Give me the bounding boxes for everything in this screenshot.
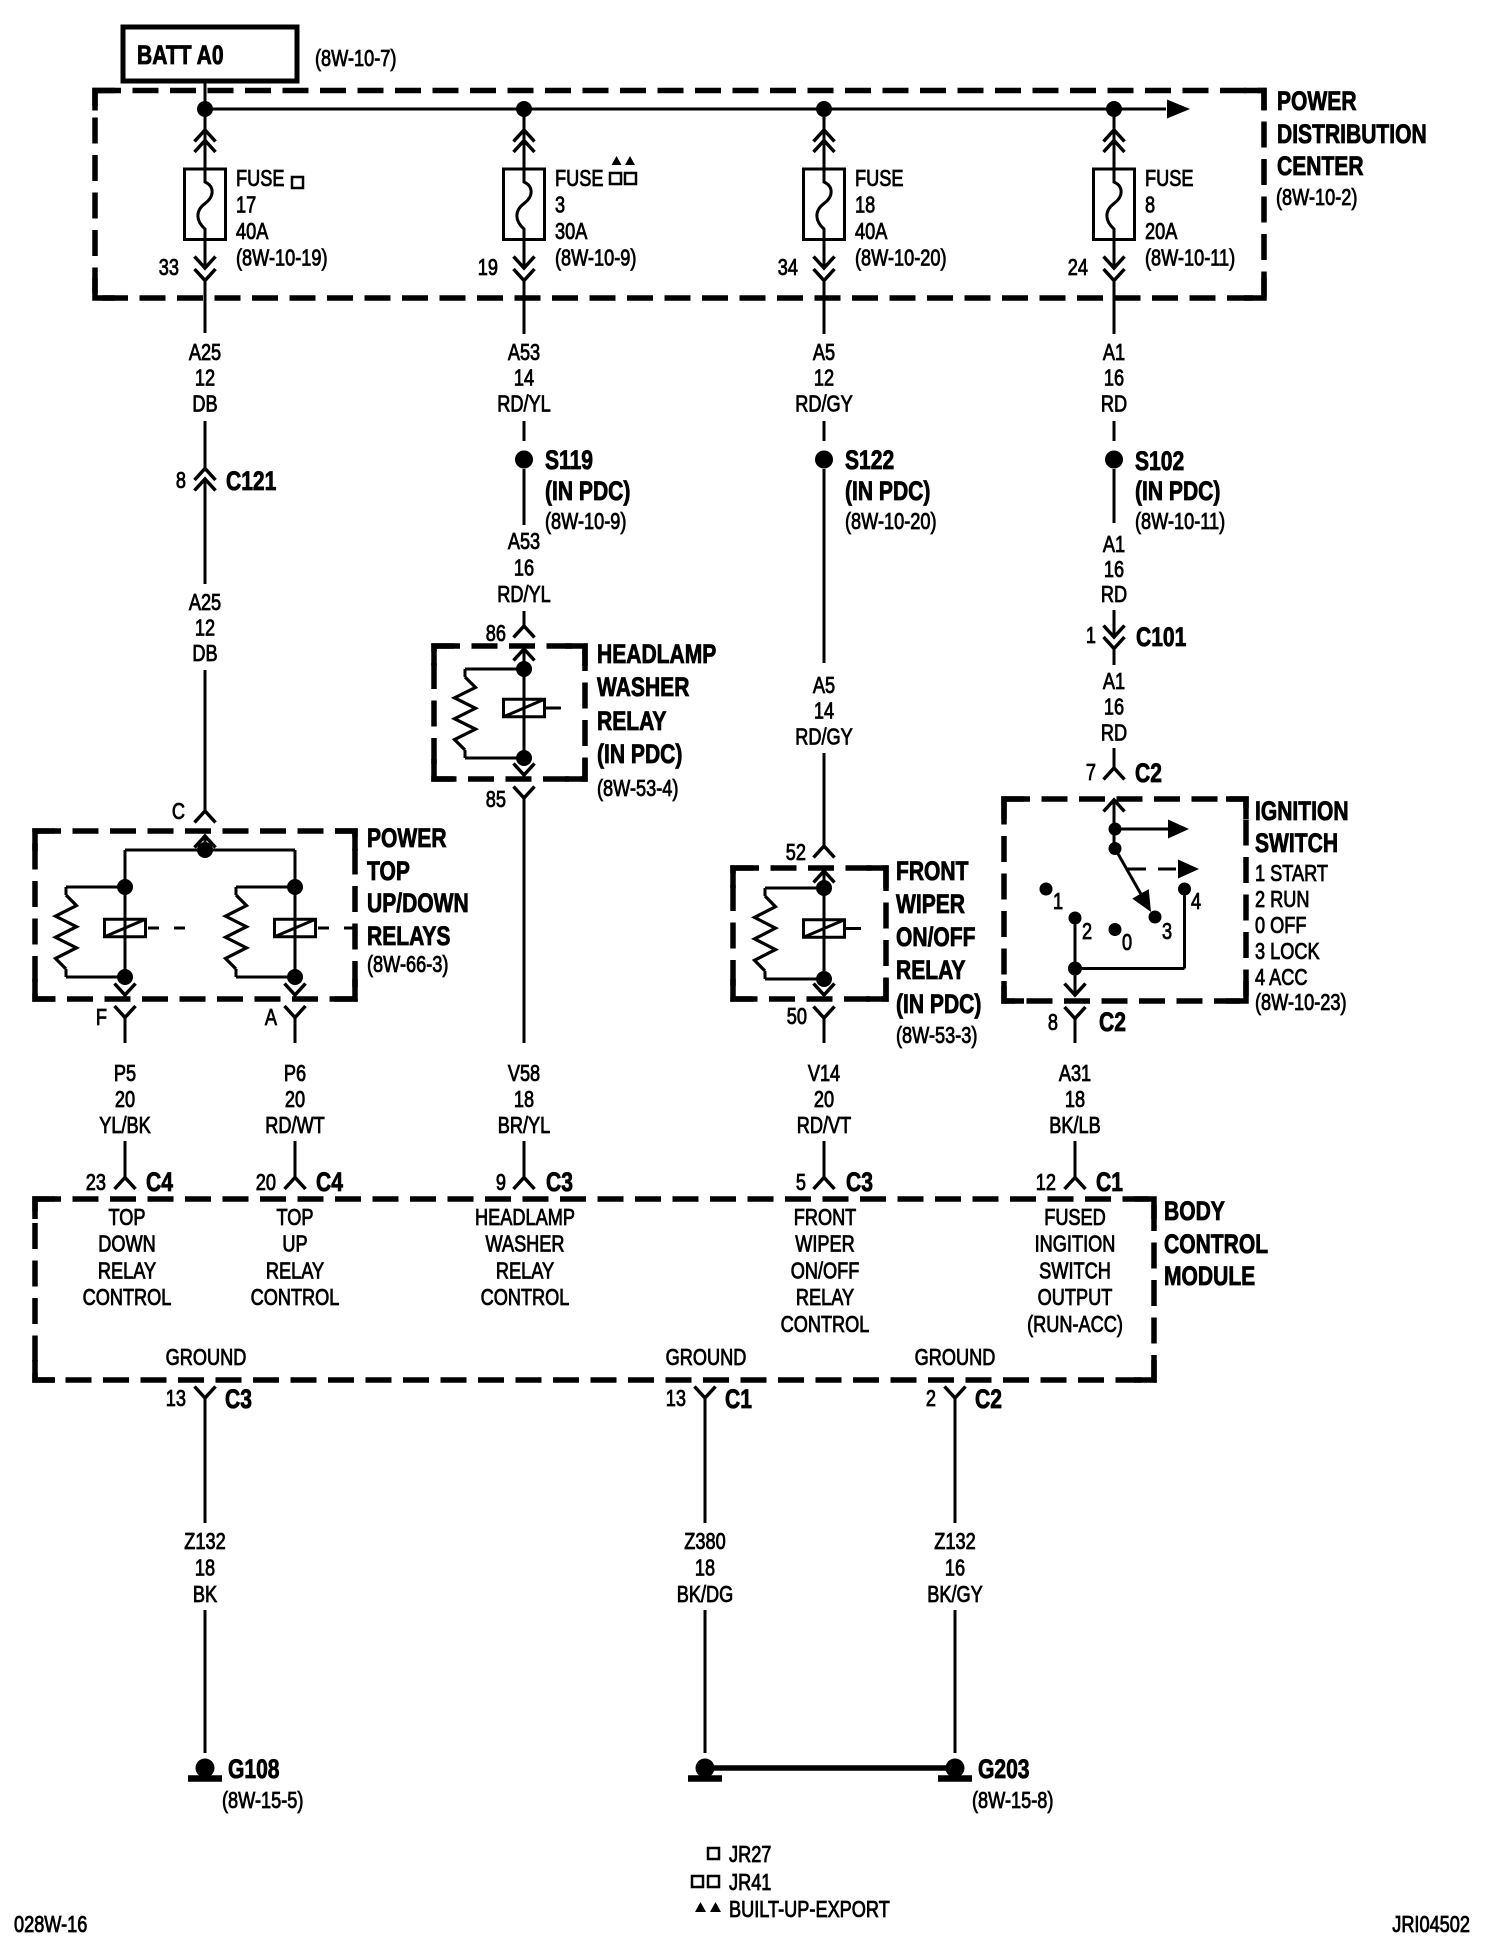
wire feed drop top down relay — [124, 850, 127, 887]
svg-text:A25: A25 — [189, 340, 221, 366]
svg-text:FUSE: FUSE — [855, 166, 903, 192]
svg-text:12: 12 — [814, 366, 834, 392]
wire Z380 upper — [704, 1398, 707, 1523]
svg-text:C4: C4 — [316, 1168, 343, 1198]
svg-text:86: 86 — [486, 621, 506, 647]
svg-text:RD/YL: RD/YL — [497, 391, 551, 417]
svg-text:INGITION: INGITION — [1035, 1232, 1116, 1258]
wire ignition output — [1074, 969, 1077, 996]
wire Z132 lower — [954, 1610, 957, 1753]
svg-text:(8W-15-8): (8W-15-8) — [972, 1788, 1053, 1814]
splice S102 — [1105, 451, 1123, 469]
svg-text:(8W-10-23): (8W-10-23) — [1255, 990, 1347, 1016]
fuse F18 symbol — [804, 169, 845, 240]
fuse F8 symbol — [1094, 169, 1135, 240]
junction bus node col1 — [197, 101, 213, 117]
wire ignition feed — [1113, 800, 1116, 849]
svg-text:(8W-10-7): (8W-10-7) — [315, 46, 396, 72]
svg-text:16: 16 — [514, 556, 534, 582]
relay coil top down relay — [124, 887, 127, 977]
svg-text:GROUND: GROUND — [166, 1345, 247, 1371]
svg-text:RELAY: RELAY — [896, 956, 965, 986]
svg-text:(8W-10-2): (8W-10-2) — [1276, 185, 1357, 211]
fuse F3 symbol — [504, 169, 545, 240]
svg-text:A31: A31 — [1059, 1061, 1091, 1087]
legend JR27 marker — [708, 1848, 719, 1859]
wire bus to fuse 3 — [523, 109, 526, 169]
switch position contact 4 — [1178, 883, 1191, 896]
resistor front wiper relay coil suppression — [765, 887, 824, 890]
wire entry to junction — [204, 836, 207, 850]
svg-text:50: 50 — [787, 1004, 807, 1030]
power top up/down relays box — [35, 831, 355, 999]
svg-text:IGNITION: IGNITION — [1255, 797, 1349, 827]
svg-text:C3: C3 — [846, 1168, 873, 1198]
connector fork pin A — [285, 1006, 306, 1018]
wire contact 4 down — [1183, 896, 1186, 969]
wire V58 to BCM — [523, 1141, 526, 1178]
svg-text:12: 12 — [195, 366, 215, 392]
wire A25 upper segment — [204, 421, 207, 469]
junction headlamp relay top — [516, 661, 532, 677]
svg-text:14: 14 — [814, 699, 834, 725]
svg-text:(8W-10-19): (8W-10-19) — [236, 246, 328, 272]
svg-text:16: 16 — [1104, 557, 1124, 583]
svg-text:23: 23 — [86, 1170, 106, 1196]
svg-text:18: 18 — [695, 1556, 715, 1582]
svg-text:19: 19 — [478, 255, 498, 281]
ground symbol G108 — [196, 1759, 215, 1778]
svg-text:A5: A5 — [813, 673, 835, 699]
svg-text:(8W-15-5): (8W-15-5) — [222, 1788, 303, 1814]
svg-text:24: 24 — [1068, 255, 1088, 281]
wire A31 to BCM — [1074, 1141, 1077, 1178]
svg-text:40A: 40A — [855, 219, 887, 245]
wire Z132 lower — [204, 1610, 207, 1753]
svg-text:13: 13 — [166, 1386, 186, 1412]
svg-text:20: 20 — [285, 1087, 305, 1113]
connector halves above fuse 17 — [195, 130, 216, 142]
connector fork pin 85 — [514, 787, 535, 799]
wire ground link G203 — [705, 1765, 955, 1771]
ignition switch box — [1004, 799, 1246, 1001]
svg-text:20: 20 — [256, 1170, 276, 1196]
body control module box — [35, 1199, 1154, 1380]
svg-text:V14: V14 — [808, 1061, 840, 1087]
svg-text:C3: C3 — [225, 1385, 252, 1415]
relay coil headlamp washer — [523, 669, 526, 758]
svg-text:BR/YL: BR/YL — [498, 1113, 551, 1139]
svg-text:(IN PDC): (IN PDC) — [597, 740, 682, 770]
relay top up relay actuator dashes — [318, 927, 329, 930]
svg-text:1: 1 — [1053, 889, 1063, 915]
junction ignition feed B — [1109, 842, 1122, 855]
fuse 3 marker squares — [610, 173, 621, 184]
wire contact 2 down — [1074, 925, 1077, 969]
svg-text:BATT A0: BATT A0 — [137, 41, 224, 71]
svg-text:17: 17 — [236, 193, 256, 219]
svg-text:12: 12 — [195, 616, 215, 642]
svg-text:RD/GY: RD/GY — [795, 391, 853, 417]
svg-text:RD/VT: RD/VT — [797, 1113, 852, 1139]
svg-text:POWER: POWER — [367, 824, 447, 854]
battery feed box BATT A0 — [123, 27, 297, 81]
junction bus node col4 — [1106, 101, 1122, 117]
Power Distribution Center box — [95, 91, 1264, 299]
wire pin 24 through PDC edge — [1113, 281, 1116, 335]
wire fuse 18 to pin 34 — [823, 240, 826, 268]
svg-text:C2: C2 — [1099, 1008, 1126, 1038]
svg-text:YL/BK: YL/BK — [99, 1113, 151, 1139]
svg-text:18: 18 — [514, 1087, 534, 1113]
svg-text:3 LOCK: 3 LOCK — [1255, 939, 1320, 965]
wire A1 to connector C101 — [1113, 610, 1116, 637]
svg-text:CONTROL: CONTROL — [83, 1285, 172, 1311]
svg-text:C101: C101 — [1136, 623, 1186, 653]
svg-text:A53: A53 — [508, 529, 540, 555]
svg-text:14: 14 — [514, 366, 534, 392]
bus arrow — [1167, 100, 1190, 119]
svg-text:C: C — [172, 799, 185, 825]
run-position dashed arrow — [1126, 868, 1146, 871]
switch position contact 3 — [1149, 911, 1162, 924]
relay actuator stub — [546, 707, 561, 710]
svg-text:40A: 40A — [236, 219, 268, 245]
wire S122 down — [823, 469, 826, 663]
svg-text:0 OFF: 0 OFF — [1255, 913, 1306, 939]
svg-text:34: 34 — [778, 255, 798, 281]
wire ignition to label A31 — [1074, 1019, 1077, 1044]
connector fork pin F — [115, 1006, 136, 1018]
svg-text:(IN PDC): (IN PDC) — [1135, 477, 1220, 507]
wire A25 lower segment — [204, 479, 207, 584]
svg-text:1 START: 1 START — [1255, 861, 1328, 887]
svg-text:P5: P5 — [114, 1061, 136, 1087]
svg-text:C4: C4 — [146, 1168, 173, 1198]
svg-text:BODY: BODY — [1164, 1197, 1225, 1227]
wire fuse 3 to pin 19 — [523, 240, 526, 268]
svg-text:16: 16 — [1104, 695, 1124, 721]
svg-text:2: 2 — [1082, 919, 1092, 945]
junction top up relay top — [287, 879, 303, 895]
arrow exit top up relay — [285, 984, 306, 996]
junction ignition feed A — [1109, 823, 1122, 836]
svg-text:30A: 30A — [555, 219, 587, 245]
svg-text:BK/GY: BK/GY — [927, 1582, 983, 1608]
wire pin 19 through PDC edge — [523, 281, 526, 335]
arrow exit top down relay — [115, 984, 136, 996]
svg-text:RELAY: RELAY — [796, 1285, 854, 1311]
junction ignition output — [1068, 962, 1082, 976]
wire bus to fuse 8 — [1113, 109, 1116, 169]
svg-text:GROUND: GROUND — [915, 1345, 996, 1371]
svg-text:18: 18 — [1065, 1087, 1085, 1113]
svg-text:16: 16 — [945, 1556, 965, 1582]
svg-text:CENTER: CENTER — [1277, 152, 1364, 182]
junction front wiper relay bottom — [816, 971, 832, 987]
wire pin 34 through PDC edge — [823, 281, 826, 335]
wire Z132 upper — [954, 1398, 957, 1523]
switch position contact 2 — [1069, 912, 1082, 925]
svg-text:8: 8 — [1145, 193, 1155, 219]
svg-text:A25: A25 — [189, 590, 221, 616]
svg-text:8: 8 — [1048, 1010, 1058, 1036]
arrow exit headlamp relay — [514, 764, 535, 776]
wire A5 to splice S122 — [823, 421, 826, 441]
resistor top down relay coil suppression — [66, 886, 125, 889]
svg-text:028W-16: 028W-16 — [14, 1912, 87, 1938]
resistor headlamp relay coil suppression — [465, 668, 524, 671]
svg-text:JR41: JR41 — [729, 1870, 771, 1896]
svg-text:A1: A1 — [1103, 669, 1125, 695]
connector exit pin 24 — [1104, 257, 1125, 269]
junction top up relay bottom — [287, 969, 303, 985]
svg-text:CONTROL: CONTROL — [481, 1285, 570, 1311]
svg-text:(8W-66-3): (8W-66-3) — [367, 952, 448, 978]
connector fork node C — [195, 811, 216, 823]
resistor top up relay coil suppression — [236, 886, 295, 889]
junction top down relay top — [117, 879, 133, 895]
arrow entry front wiper relay — [814, 871, 835, 883]
fuse 17 marker square — [292, 177, 303, 188]
svg-text:85: 85 — [486, 787, 506, 813]
svg-text:FUSE: FUSE — [555, 166, 603, 192]
arrow entry headlamp relay — [514, 649, 535, 661]
svg-text:C3: C3 — [546, 1168, 573, 1198]
wire BATT A0 to bus — [204, 81, 207, 109]
svg-text:9: 9 — [496, 1170, 506, 1196]
relay coil top up relay — [294, 887, 297, 977]
wire A53 to splice S119 — [523, 421, 526, 441]
front wiper on/off relay box — [733, 868, 886, 999]
junction bus node col3 — [816, 101, 832, 117]
svg-text:S122: S122 — [845, 446, 894, 476]
svg-text:RELAY: RELAY — [98, 1258, 156, 1284]
ground symbol — [696, 1759, 715, 1778]
wire relay feed rail — [125, 849, 295, 852]
svg-text:(8W-10-11): (8W-10-11) — [1145, 246, 1235, 272]
connector halves above fuse 8 — [1104, 130, 1125, 142]
svg-text:WIPER: WIPER — [896, 890, 965, 920]
svg-text:RD/YL: RD/YL — [497, 582, 551, 608]
svg-text:DOWN: DOWN — [98, 1232, 156, 1258]
wire V14 to BCM — [823, 1141, 826, 1178]
svg-text:A: A — [265, 1005, 277, 1031]
svg-text:8: 8 — [176, 468, 186, 494]
switch position contact 0 — [1109, 923, 1122, 936]
svg-text:P6: P6 — [284, 1061, 306, 1087]
svg-text:TOP: TOP — [276, 1205, 313, 1231]
relay actuator stub — [846, 927, 861, 930]
svg-text:RD: RD — [1101, 391, 1127, 417]
svg-text:(8W-10-11): (8W-10-11) — [1135, 509, 1225, 535]
svg-text:HEADLAMP: HEADLAMP — [597, 640, 716, 670]
svg-text:Z380: Z380 — [684, 1529, 725, 1555]
svg-text:A53: A53 — [508, 340, 540, 366]
connector fork pin 52 — [814, 846, 835, 858]
wire A5 to relay pin 52 — [823, 753, 826, 846]
svg-text:F: F — [96, 1005, 107, 1031]
wire Z380 lower — [704, 1610, 707, 1753]
svg-text:16: 16 — [1104, 366, 1124, 392]
splice S119 — [515, 451, 533, 469]
svg-text:RELAYS: RELAYS — [367, 922, 450, 952]
svg-text:C2: C2 — [1135, 759, 1162, 789]
wire fuse 8 to pin 24 — [1113, 240, 1116, 268]
svg-text:FRONT: FRONT — [896, 857, 969, 887]
svg-text:18: 18 — [855, 193, 875, 219]
splice S122 — [815, 451, 833, 469]
junction top down relay bottom — [117, 969, 133, 985]
relay top down relay actuator dashes — [148, 927, 159, 930]
svg-text:JRI04502: JRI04502 — [1392, 1912, 1470, 1938]
svg-text:12: 12 — [1036, 1170, 1056, 1196]
svg-text:(IN PDC): (IN PDC) — [896, 990, 981, 1020]
svg-text:4 ACC: 4 ACC — [1255, 965, 1308, 991]
svg-text:20: 20 — [814, 1087, 834, 1113]
svg-text:TOP: TOP — [108, 1205, 145, 1231]
wire A1 to ignition switch — [1113, 748, 1116, 768]
svg-text:V58: V58 — [508, 1061, 540, 1087]
wire pin 33 through PDC edge — [204, 281, 207, 334]
svg-text:C1: C1 — [725, 1385, 752, 1415]
wire A53 to relay pin 86 — [523, 611, 526, 626]
svg-text:RELAY: RELAY — [266, 1258, 324, 1284]
svg-text:(RUN-ACC): (RUN-ACC) — [1027, 1312, 1123, 1338]
legend JR41 markers — [692, 1876, 703, 1887]
svg-text:DISTRIBUTION: DISTRIBUTION — [1277, 120, 1427, 150]
wire acc-run link — [1075, 967, 1185, 970]
svg-text:2 RUN: 2 RUN — [1255, 887, 1310, 913]
svg-text:Z132: Z132 — [184, 1529, 225, 1555]
svg-text:C2: C2 — [975, 1385, 1002, 1415]
switch wiper arm toward position 3 — [1115, 849, 1146, 904]
wire start-position arrow — [1115, 828, 1168, 831]
svg-text:UP: UP — [282, 1232, 307, 1258]
svg-text:RD: RD — [1101, 582, 1127, 608]
svg-text:FUSE: FUSE — [236, 166, 284, 192]
headlamp washer relay box — [434, 646, 585, 779]
svg-text:(8W-53-3): (8W-53-3) — [896, 1023, 977, 1049]
svg-text:SWITCH: SWITCH — [1039, 1258, 1111, 1284]
junction headlamp relay bottom — [516, 750, 532, 766]
svg-text:33: 33 — [159, 255, 179, 281]
wire P6 to BCM — [294, 1141, 297, 1178]
svg-text:2: 2 — [926, 1386, 936, 1412]
svg-text:CONTROL: CONTROL — [251, 1285, 340, 1311]
relay coil front wiper — [823, 888, 826, 979]
svg-text:ON/OFF: ON/OFF — [896, 923, 976, 953]
arrow exit front wiper relay — [814, 984, 835, 996]
svg-text:A5: A5 — [813, 340, 835, 366]
connector exit pin 33 — [195, 257, 216, 269]
svg-text:(8W-10-9): (8W-10-9) — [555, 246, 636, 272]
fuse 3 marker triangles — [612, 156, 622, 165]
svg-text:UP/DOWN: UP/DOWN — [367, 889, 469, 919]
svg-text:1: 1 — [1086, 623, 1096, 649]
svg-text:4: 4 — [1191, 889, 1201, 915]
bus wire A0 — [205, 108, 1166, 111]
svg-text:RD: RD — [1101, 720, 1127, 746]
connector halves above fuse 18 — [814, 130, 835, 142]
arrow entry ignition switch — [1104, 800, 1125, 812]
wire P5 to BCM — [124, 1141, 127, 1178]
svg-text:18: 18 — [195, 1556, 215, 1582]
svg-text:GROUND: GROUND — [666, 1345, 747, 1371]
svg-text:(IN PDC): (IN PDC) — [845, 477, 930, 507]
svg-text:13: 13 — [666, 1386, 686, 1412]
svg-text:FUSE: FUSE — [1145, 166, 1193, 192]
wire Z132 upper — [204, 1398, 207, 1523]
switch position contact 1 — [1040, 883, 1053, 896]
wire A1 to splice S102 — [1113, 421, 1116, 441]
svg-text:RD/GY: RD/GY — [795, 724, 853, 750]
svg-text:S102: S102 — [1135, 447, 1184, 477]
svg-text:20: 20 — [115, 1087, 135, 1113]
svg-text:A1: A1 — [1103, 340, 1125, 366]
svg-text:G108: G108 — [228, 1755, 280, 1785]
svg-text:C121: C121 — [226, 467, 276, 497]
svg-text:CONTROL: CONTROL — [781, 1312, 870, 1338]
svg-text:BK/DG: BK/DG — [677, 1582, 734, 1608]
svg-text:CONTROL: CONTROL — [1164, 1230, 1268, 1260]
svg-text:(8W-10-20): (8W-10-20) — [855, 246, 947, 272]
svg-text:DB: DB — [192, 641, 217, 667]
wire A25 to power top relays — [204, 670, 207, 811]
svg-text:TOP: TOP — [367, 857, 410, 887]
wire bus to fuse 18 — [823, 109, 826, 169]
wire relay 85 to label V58 — [523, 798, 526, 1043]
junction node relays feed — [197, 842, 213, 858]
svg-text:52: 52 — [786, 840, 806, 866]
connector halves above fuse 3 — [514, 130, 535, 142]
svg-text:HEADLAMP: HEADLAMP — [475, 1205, 575, 1231]
svg-text:RD/WT: RD/WT — [265, 1113, 325, 1139]
svg-text:G203: G203 — [978, 1755, 1030, 1785]
svg-text:RELAY: RELAY — [597, 707, 666, 737]
svg-text:OUTPUT: OUTPUT — [1038, 1285, 1113, 1311]
connector exit pin 19 — [514, 257, 535, 269]
svg-text:RELAY: RELAY — [496, 1258, 554, 1284]
legend BUILT-UP-EXPORT markers — [695, 1902, 706, 1912]
svg-text:20A: 20A — [1145, 219, 1177, 245]
wire fuse 17 to pin 33 — [204, 240, 207, 268]
svg-text:BK/LB: BK/LB — [1049, 1113, 1101, 1139]
svg-text:MODULE: MODULE — [1164, 1262, 1255, 1292]
svg-text:SWITCH: SWITCH — [1255, 829, 1338, 859]
svg-text:C1: C1 — [1096, 1168, 1123, 1198]
connector fork pin 50 — [814, 1007, 835, 1019]
svg-text:WASHER: WASHER — [597, 673, 689, 703]
svg-text:ON/OFF: ON/OFF — [791, 1258, 860, 1284]
wire bus to fuse 17 — [204, 109, 207, 169]
connector fork pin 86 — [514, 626, 535, 638]
svg-text:(8W-10-20): (8W-10-20) — [845, 509, 937, 535]
svg-text:WIPER: WIPER — [795, 1232, 855, 1258]
svg-text:S119: S119 — [545, 446, 593, 476]
svg-text:FRONT: FRONT — [794, 1205, 857, 1231]
svg-text:DB: DB — [192, 391, 217, 417]
svg-text:0: 0 — [1122, 930, 1132, 956]
svg-text:BUILT-UP-EXPORT: BUILT-UP-EXPORT — [729, 1897, 890, 1923]
fuse F17 symbol — [185, 169, 226, 240]
svg-text:(IN PDC): (IN PDC) — [545, 477, 630, 507]
svg-text:A1: A1 — [1103, 532, 1125, 558]
connector exit pin 34 — [814, 257, 835, 269]
svg-text:JR27: JR27 — [729, 1842, 771, 1868]
svg-text:3: 3 — [555, 193, 565, 219]
svg-text:Z132: Z132 — [934, 1529, 975, 1555]
